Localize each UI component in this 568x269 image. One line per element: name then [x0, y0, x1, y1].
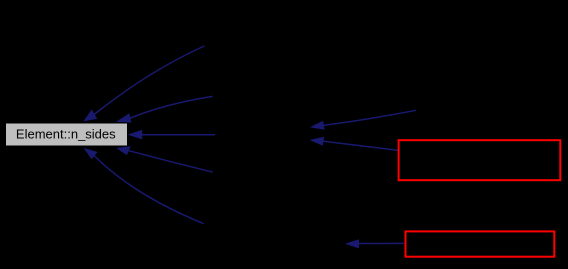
- edge E (horizontal caller arrow into Element::n_sides): [128, 130, 215, 140]
- edge D (fourth caller arrow into Element::n_sides): [116, 146, 213, 172]
- edge G (arrow into hidden middle node from red box 1): [310, 137, 398, 151]
- edge B (second caller arrow into Element::n_sides): [116, 96, 213, 122]
- edge A (top curved caller arrow into Element::n_sides): [83, 46, 204, 121]
- edge H (horizontal arrow from red box 2 into hidden bottom node): [345, 239, 404, 248]
- node Element::n_sides (gray filled box): [6, 123, 128, 146]
- red node 2 (truncated caller box, one line tall): [406, 231, 555, 256]
- edge C (bottom curved caller arrow into Element::n_sides): [84, 148, 204, 224]
- edge F (arrow into hidden middle node from upper right node): [310, 110, 416, 130]
- svg-text:Element::n_sides: Element::n_sides: [16, 126, 116, 141]
- red node 1 (truncated caller box, two lines tall): [399, 140, 561, 180]
